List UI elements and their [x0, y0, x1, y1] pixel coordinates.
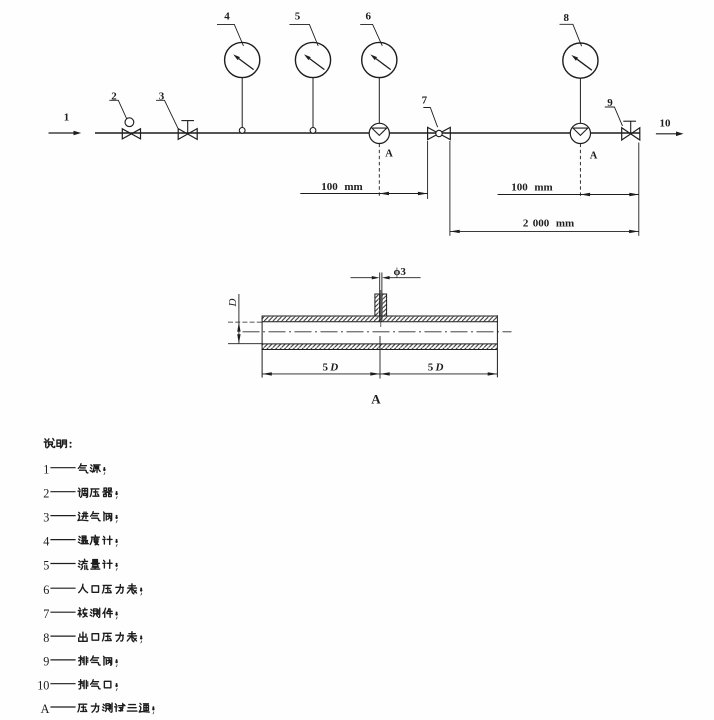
dimension phi3: [351, 266, 421, 280]
svg-text:A: A: [41, 702, 50, 716]
svg-text:D: D: [227, 299, 239, 308]
legend line 3: 进气阀: [43, 510, 117, 524]
legend line 9: 排气阀: [43, 655, 117, 669]
extension line below tee A right (dashed): [579, 144, 581, 199]
svg-text:9: 9: [607, 97, 613, 109]
svg-text:3: 3: [43, 510, 49, 524]
dimension 100 mm right: [498, 182, 639, 197]
svg-text:8: 8: [563, 12, 569, 24]
legend line 2: 调压器: [43, 487, 117, 501]
svg-text:10: 10: [660, 117, 672, 129]
svg-text:8: 8: [43, 631, 49, 645]
svg-text:A: A: [590, 151, 598, 162]
pipe left end line: [261, 316, 263, 378]
svg-text:2: 2: [43, 487, 49, 501]
svg-text:3: 3: [159, 90, 165, 102]
legend line 1: 气源: [43, 463, 105, 477]
pipe right end line: [496, 315, 498, 377]
stem of gauge 5: [312, 77, 314, 127]
dimension D: [227, 294, 262, 344]
dimension 5D 5D: [262, 361, 497, 375]
regulator valve 2: [122, 118, 140, 139]
thermometer gauge 4: [225, 42, 260, 77]
leader for label 5: [289, 24, 318, 46]
leader for label 4: [217, 24, 244, 46]
svg-text:7: 7: [422, 94, 428, 106]
pipe centerline: [243, 331, 512, 333]
svg-text:ϕ3: ϕ3: [394, 266, 407, 278]
inlet pressure gauge 6: [362, 42, 397, 77]
svg-text:9: 9: [43, 655, 49, 669]
leader for label 3: [156, 100, 178, 128]
leader for label 2: [109, 100, 126, 118]
svg-text:A: A: [371, 392, 381, 407]
svg-text:2 000 mm: 2 000 mm: [523, 217, 574, 229]
extension line below valve 9 right edge: [638, 143, 640, 236]
outlet arrow (node 10): [656, 132, 684, 137]
legend line 5: 流量计: [43, 558, 117, 572]
legend title 说明:: [44, 438, 71, 447]
leader for label 7: [423, 108, 437, 128]
svg-text:100 mm: 100 mm: [321, 181, 362, 193]
dimension 100 mm left: [300, 181, 427, 195]
wire: main pipe line: [95, 132, 640, 134]
tapping boss right block: [382, 294, 387, 316]
inlet arrow (node 1): [49, 131, 82, 135]
pressure test tee A (left): [369, 123, 389, 143]
stem of gauge 6: [378, 77, 380, 123]
leader for label 6: [360, 24, 382, 45]
pipe top wall (hatched): [262, 316, 498, 322]
section mark line at A: [379, 336, 381, 379]
legend line A: 压力测试三通: [41, 702, 155, 716]
legend line 8: 出口压力表: [43, 631, 142, 645]
tested piece valve 7: [428, 127, 451, 139]
svg-text:7: 7: [43, 607, 49, 621]
svg-text:6: 6: [43, 583, 49, 597]
vent valve 9: [622, 121, 640, 140]
extension line below valve 7 right edge: [449, 141, 451, 236]
flowmeter gauge 5: [295, 42, 330, 77]
legend line 4: 温度计: [43, 534, 117, 548]
svg-text:1: 1: [43, 463, 49, 477]
legend line 10: 排气口: [37, 679, 117, 693]
svg-text:1: 1: [64, 112, 70, 124]
svg-text:5: 5: [43, 558, 49, 572]
junction circle under gauge 4: [239, 127, 245, 133]
svg-text:6: 6: [366, 11, 372, 23]
legend line 7: 被测件: [43, 607, 117, 621]
svg-text:A: A: [385, 149, 393, 160]
svg-text:100 mm: 100 mm: [511, 182, 552, 194]
leader for label 9: [605, 107, 623, 126]
stem of gauge 8: [579, 78, 581, 123]
extension line below valve 7 left edge: [427, 141, 429, 199]
leader for label 8: [560, 24, 582, 46]
svg-text:5 D: 5 D: [323, 361, 339, 373]
svg-text:5 D: 5 D: [428, 361, 444, 373]
outlet pressure gauge 8: [563, 43, 598, 78]
tapping channel wall right: [381, 273, 383, 322]
svg-text:2: 2: [111, 90, 117, 102]
tapping axis line: [380, 290, 382, 327]
pipe bottom wall (hatched): [262, 344, 498, 350]
junction circle under gauge 5: [310, 127, 316, 133]
stem of gauge 4: [241, 77, 243, 127]
dimension 2 000 mm: [450, 217, 639, 233]
inlet valve 3: [178, 121, 197, 140]
svg-text:10: 10: [37, 679, 49, 693]
tapping boss left block: [375, 294, 380, 316]
svg-text:4: 4: [43, 534, 49, 548]
tapping channel wall left: [379, 273, 381, 322]
extension line below tee A left (dashed): [378, 144, 380, 198]
legend line 6: 入口压力表: [43, 583, 142, 597]
svg-text:4: 4: [224, 11, 230, 23]
pressure test tee A (right): [570, 123, 590, 143]
svg-text:5: 5: [295, 11, 301, 23]
